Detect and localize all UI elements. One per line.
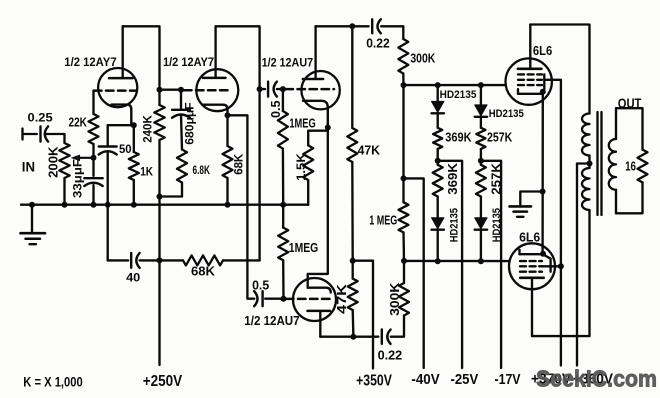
node V4 plate 47K xyxy=(350,334,356,340)
node rail 33uuF xyxy=(91,202,97,208)
wire wiper down to 33uuF xyxy=(92,158,94,176)
svg-text:-40V: -40V xyxy=(411,371,439,388)
label 257K upper xyxy=(487,130,512,144)
label 0.5 upper xyxy=(269,100,283,118)
wire screen bus to supply xyxy=(560,266,562,365)
transformer T1 secondary winding xyxy=(609,108,616,213)
label HD2135 D2 xyxy=(448,208,460,242)
label 47K lower xyxy=(335,284,349,314)
label 200K xyxy=(46,146,61,178)
label IN xyxy=(22,160,35,175)
label 1/2 12AU7 upper xyxy=(262,58,314,70)
tube V2 plate xyxy=(203,26,226,78)
svg-text:40: 40 xyxy=(126,271,141,285)
capacitor C3 50 cathode bypass xyxy=(99,147,117,155)
tube V6 grid rows dashed xyxy=(520,261,542,272)
svg-text:HD2135: HD2135 xyxy=(440,89,477,101)
wire ground tap xyxy=(520,192,542,206)
resistor R6 68K cathode xyxy=(223,115,233,204)
node 680uuF tap xyxy=(178,87,184,93)
label 257K lower xyxy=(489,163,503,195)
svg-text:HD2135: HD2135 xyxy=(491,208,503,242)
svg-text:OUT: OUT xyxy=(618,95,642,111)
tube V1 grid dashed xyxy=(94,89,137,92)
resistor R14 300K lower xyxy=(399,261,409,316)
svg-text:22K: 22K xyxy=(69,115,87,129)
wire plate node to 0.22 xyxy=(353,336,378,338)
transformer T1 core xyxy=(598,112,602,215)
tube V6 6L6 envelope xyxy=(509,243,555,289)
node 47K top xyxy=(349,23,355,29)
node V3 grid xyxy=(280,86,286,92)
wire V3 plate top run xyxy=(316,25,369,27)
svg-text:K = X 1,000: K = X 1,000 xyxy=(23,373,83,389)
node V5 cathode xyxy=(540,89,546,95)
label 68K horizontal xyxy=(191,265,215,279)
node -25V tap xyxy=(435,158,441,164)
svg-text:6L6: 6L6 xyxy=(533,44,552,58)
svg-text:257K: 257K xyxy=(489,163,503,195)
resistor R13 47K lower xyxy=(348,261,358,337)
label 369K upper xyxy=(445,130,471,144)
svg-text:6.8K: 6.8K xyxy=(193,163,211,177)
label 50 xyxy=(119,142,132,156)
tube V6 plate xyxy=(520,278,544,336)
resistor R2 22K grid stopper xyxy=(89,91,99,158)
label 240K xyxy=(141,115,155,143)
resistor R10 1.5K shared cathode xyxy=(303,128,328,205)
svg-text:0.22: 0.22 xyxy=(378,348,403,362)
tube V2 cathode xyxy=(203,105,228,116)
diode D3 HD2135 upper B xyxy=(475,85,487,117)
tube V4 cathode xyxy=(308,288,331,293)
svg-text:200K: 200K xyxy=(46,146,61,178)
label 22K xyxy=(69,115,87,129)
wire 40 to node xyxy=(140,259,160,261)
wire cap 50 to rail xyxy=(107,152,109,205)
wire V5 screen exit xyxy=(545,80,561,266)
node ground tap xyxy=(540,189,546,195)
label 16 xyxy=(625,159,636,174)
wire secondary loop xyxy=(616,108,643,213)
label K = X 1000 xyxy=(23,373,83,389)
tube V4 envelope xyxy=(293,278,336,321)
wire -40V feed xyxy=(404,178,424,368)
label 1.5K xyxy=(294,153,308,181)
label +350V xyxy=(356,373,392,390)
svg-text:33μμF: 33μμF xyxy=(73,159,85,198)
wire V2 plate top run xyxy=(216,26,260,89)
svg-text:50: 50 xyxy=(119,142,132,156)
resistor R15 1MEG bias xyxy=(399,178,409,261)
svg-text:1K: 1K xyxy=(140,165,153,179)
tube V5 beam plate tie xyxy=(543,74,545,91)
svg-text:240K: 240K xyxy=(141,115,155,143)
svg-text:369K: 369K xyxy=(446,163,460,195)
wire 6.8K jog to +250V line xyxy=(160,195,183,197)
wire -17V feed xyxy=(481,161,501,368)
svg-text:300K: 300K xyxy=(388,283,402,316)
wire input cap to pot xyxy=(46,134,65,143)
wire V6 plate run xyxy=(532,210,590,336)
tube V3 cathode xyxy=(303,101,328,128)
label -40V xyxy=(411,371,439,388)
capacitor C8 0.22 upper xyxy=(372,19,381,33)
resistor R4 240K plate load xyxy=(154,90,164,197)
potentiometer R1 200K xyxy=(59,143,69,178)
label 300K lower xyxy=(388,283,402,316)
resistor R17 369K lower xyxy=(433,161,443,218)
wire primary tap bridge xyxy=(588,156,590,169)
wire bias bus upper xyxy=(404,84,506,86)
wire cathode bus xyxy=(541,92,544,254)
wire 0.22 to 300K lower xyxy=(391,316,404,337)
svg-text:HD2135: HD2135 xyxy=(448,208,460,242)
svg-text:300K: 300K xyxy=(410,52,435,66)
resistor R20 16 ohm load xyxy=(638,150,648,183)
svg-text:1MEG: 1MEG xyxy=(289,117,315,131)
wire +250V riser xyxy=(158,197,160,366)
svg-text:369K: 369K xyxy=(445,130,471,144)
svg-text:1MEG: 1MEG xyxy=(289,241,318,255)
resistor R7 68K horizontal xyxy=(160,255,260,265)
label -25V xyxy=(451,371,479,388)
node rail cap50 xyxy=(105,202,111,208)
wire -25V feed xyxy=(438,161,462,368)
wire plate vertical to feedback node xyxy=(258,89,260,260)
label 0.22 upper xyxy=(366,36,390,50)
tube V4 grid dashed xyxy=(286,298,332,301)
svg-text:0.5: 0.5 xyxy=(269,100,283,118)
node diode chain A top xyxy=(435,82,441,88)
wire rail drop to 40 xyxy=(108,205,129,261)
tube V6 cathode xyxy=(520,250,542,254)
ground symbol output stage xyxy=(510,206,532,216)
tube V6 beam plate tie xyxy=(544,255,551,272)
node chain A bottom xyxy=(435,258,441,264)
label +360V xyxy=(573,371,613,388)
node screen bus join xyxy=(558,263,564,269)
svg-text:IN: IN xyxy=(22,160,35,175)
node chain B bottom xyxy=(478,258,484,264)
tube V1 cathode xyxy=(112,105,132,126)
label HD2135 D4 xyxy=(491,208,503,242)
label 1MEG upper xyxy=(289,117,315,131)
input terminal IN xyxy=(23,129,37,140)
capacitor C4 680uuF xyxy=(172,90,190,150)
tube V2 envelope xyxy=(196,69,238,111)
tube V5 grid rows dashed xyxy=(518,74,542,85)
svg-text:47K: 47K xyxy=(358,144,380,158)
wire 33uuF to ground rail xyxy=(92,185,94,205)
label 1K xyxy=(140,165,153,179)
label +250V xyxy=(143,373,183,390)
label HD2135 D3 xyxy=(489,108,524,120)
transformer T1 primary lower winding xyxy=(582,168,589,210)
node rail 1MEG pair xyxy=(280,202,286,208)
svg-text:0.25: 0.25 xyxy=(28,110,54,124)
resistor R19 257K lower xyxy=(476,161,486,218)
diode D1 HD2135 upper A xyxy=(432,85,444,113)
svg-text:1/2 12AU7: 1/2 12AU7 xyxy=(262,58,314,70)
svg-text:HD2135: HD2135 xyxy=(489,108,524,120)
svg-text:16: 16 xyxy=(625,159,636,174)
label 369K lower xyxy=(446,163,460,195)
capacitor C9 0.22 lower xyxy=(382,330,391,344)
capacitor C7 0.5 lower xyxy=(254,291,283,306)
svg-text:+250V: +250V xyxy=(143,373,183,390)
label -17V xyxy=(495,371,521,388)
resistor R3 1K cathode xyxy=(129,125,139,205)
label 40 xyxy=(126,271,141,285)
node -17V tap xyxy=(478,158,484,164)
wire 0.22 to 300K xyxy=(381,26,403,39)
wire cathode bus xyxy=(108,124,134,126)
resistor R11 300K upper xyxy=(398,39,408,85)
svg-text:680μμF: 680μμF xyxy=(185,102,197,144)
label 6L6 upper xyxy=(533,44,552,58)
wire V6 screen exit xyxy=(542,265,561,267)
label 47K upper xyxy=(358,144,380,158)
svg-text:1/2 12AY7: 1/2 12AY7 xyxy=(64,57,116,69)
resistor R5 6.8K xyxy=(177,150,187,197)
node V2 plate to coupling xyxy=(257,86,263,92)
wire to cap 50 xyxy=(107,125,109,146)
svg-text:+350V: +350V xyxy=(356,373,392,390)
node rail ground stem xyxy=(29,202,35,208)
node V3 cathode xyxy=(325,125,331,131)
ground symbol main xyxy=(21,205,46,245)
tube V4 plate xyxy=(308,311,331,337)
wire +350V feed xyxy=(353,261,373,369)
node +250V feed xyxy=(157,194,163,200)
label 1/2 12AU7 lower xyxy=(244,314,299,328)
node V4 grid xyxy=(281,296,287,302)
ground rail xyxy=(21,204,308,206)
diode D4 HD2135 lower B xyxy=(475,218,487,261)
label 1 MEG bias xyxy=(369,213,397,227)
svg-text:1 MEG: 1 MEG xyxy=(369,213,397,227)
wire pot to ground rail xyxy=(63,178,65,205)
svg-text:-25V: -25V xyxy=(451,371,479,388)
label 1/2 12AY7 second xyxy=(163,57,214,69)
node wiper junction xyxy=(91,155,97,161)
label 6.8K xyxy=(193,163,211,177)
node rail 1K xyxy=(131,202,137,208)
watermark SeekIC.com xyxy=(536,366,657,392)
node rail pot xyxy=(62,202,68,208)
node rail 68K xyxy=(225,202,231,208)
capacitor C2 33uuF xyxy=(84,178,102,186)
node cathode junction xyxy=(131,122,137,128)
wire grid bus V2 xyxy=(160,89,182,91)
label 0.22 lower xyxy=(378,348,403,362)
label 0.25 xyxy=(28,110,54,124)
svg-text:1/2 12AU7: 1/2 12AU7 xyxy=(244,314,299,328)
resistor R12 47K upper xyxy=(347,26,357,260)
tube V3 plate xyxy=(303,26,323,79)
capacitor C1 0.25 input coupling xyxy=(41,126,49,141)
tube V2 grid dashed xyxy=(184,89,232,92)
tube V1 1/2 12AY7 envelope xyxy=(98,68,137,107)
node V6 cathode xyxy=(540,251,546,257)
svg-text:1.5K: 1.5K xyxy=(294,153,308,181)
label OUT xyxy=(618,95,642,111)
resistor R9 1MEG lower grid leak xyxy=(278,205,288,299)
node diode chain B top xyxy=(478,82,484,88)
svg-text:0.22: 0.22 xyxy=(366,36,390,50)
svg-text:SeekIC.com: SeekIC.com xyxy=(536,366,657,392)
svg-text:68K: 68K xyxy=(191,265,215,279)
label 33uuF xyxy=(73,159,85,198)
resistor R18 257K upper xyxy=(476,117,485,161)
node -40V tap xyxy=(401,175,407,181)
label 1/2 12AY7 first xyxy=(64,57,116,69)
node 47K midpoint xyxy=(350,258,356,264)
wire V5 plate top run xyxy=(530,25,589,114)
resistor R16 369K upper xyxy=(433,113,442,161)
tube V5 6L6 envelope xyxy=(506,58,552,104)
transformer T1 primary upper winding xyxy=(582,114,589,156)
node primary center tap xyxy=(587,161,593,167)
wire bias bus lower xyxy=(404,260,510,263)
svg-text:257K: 257K xyxy=(487,130,512,144)
diode D2 HD2135 lower A xyxy=(432,218,444,261)
tube V3 envelope xyxy=(301,71,339,109)
node V2 cathode junction xyxy=(225,112,231,118)
tube V5 cathode xyxy=(518,89,542,94)
wire center tap supply xyxy=(577,164,590,366)
tube V1 plate xyxy=(109,26,133,78)
label 0.5 lower xyxy=(252,279,269,293)
capacitor C6 0.5 upper xyxy=(260,82,283,97)
wire V4 plate run xyxy=(320,336,350,338)
node decoupling xyxy=(157,257,163,263)
svg-text:-17V: -17V xyxy=(495,371,521,388)
svg-text:0.5: 0.5 xyxy=(252,279,269,293)
wire cathode to V4 xyxy=(308,128,328,288)
pot wiper arrow xyxy=(72,155,94,161)
tube V3 grid dashed xyxy=(286,88,335,91)
label 6L6 lower xyxy=(519,230,540,245)
label HD2135 D1 xyxy=(440,89,477,101)
label 680uuF xyxy=(185,102,197,144)
wire 300K down to 1MEG xyxy=(402,85,404,178)
node bias bus lower left xyxy=(401,258,407,264)
node V1 plate to V2 grid xyxy=(157,87,163,93)
label 68K cathode xyxy=(232,153,246,174)
capacitor C5 40 xyxy=(131,253,139,268)
wire V1 plate top run xyxy=(123,26,160,89)
label 1MEG lower xyxy=(289,241,318,255)
label 300K upper xyxy=(410,52,435,66)
svg-text:1/2 12AY7: 1/2 12AY7 xyxy=(163,57,214,69)
svg-text:68K: 68K xyxy=(232,153,246,174)
resistor R8 1MEG upper grid leak xyxy=(278,89,288,205)
tube V5 plate xyxy=(518,25,542,69)
wire cathode follower feed xyxy=(228,115,255,298)
node 300K junction upper xyxy=(401,82,407,88)
label +370V xyxy=(531,371,571,388)
